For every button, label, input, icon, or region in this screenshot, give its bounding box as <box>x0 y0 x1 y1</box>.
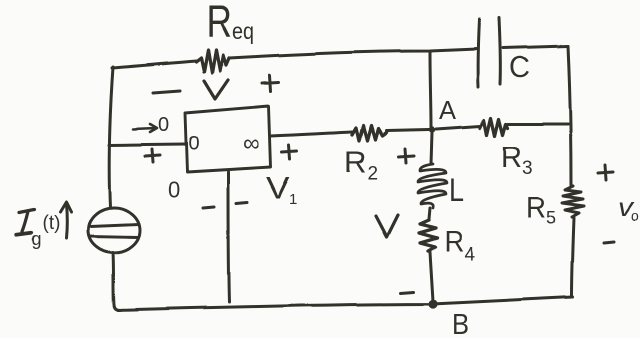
label arrow 0 current into box <box>133 124 157 132</box>
label plus left input <box>145 149 160 162</box>
wire top right segment <box>503 46 568 48</box>
svg-text:∞: ∞ <box>243 130 260 157</box>
wire L to R4 <box>429 208 430 219</box>
op-amp box U1 <box>185 106 271 172</box>
wire top middle segment <box>229 49 477 58</box>
wire R3 to right <box>508 123 568 126</box>
label minus right rail <box>604 242 614 243</box>
svg-text:R: R <box>344 146 366 179</box>
label Ig(t) <box>16 210 34 235</box>
svg-text:o: o <box>631 208 639 224</box>
wire right vertical bottom <box>572 218 574 297</box>
svg-text:R: R <box>444 226 464 258</box>
label V mid branch <box>376 215 398 237</box>
resistor Req <box>196 50 229 73</box>
wire left vertical bottom <box>113 252 120 310</box>
resistor R5 <box>562 186 584 217</box>
svg-text:0: 0 <box>158 114 169 136</box>
svg-text:R: R <box>206 0 232 47</box>
svg-text:0: 0 <box>188 133 199 155</box>
svg-text:4: 4 <box>464 244 475 265</box>
inductor L <box>418 164 447 208</box>
label plus above box <box>262 75 279 91</box>
wire top to node A <box>430 52 431 128</box>
resistor R3 <box>480 118 508 136</box>
wire node A to R3 <box>436 126 480 129</box>
wire top left segment <box>112 61 196 68</box>
wire left vertical top <box>109 67 113 207</box>
svg-text:R: R <box>501 141 522 174</box>
svg-text:5: 5 <box>546 208 556 228</box>
svg-text:3: 3 <box>522 158 533 179</box>
svg-text:L: L <box>449 172 464 208</box>
wire box output <box>271 132 352 136</box>
svg-text:C: C <box>509 51 530 84</box>
label minus above box <box>153 91 180 93</box>
svg-text:eq: eq <box>232 18 254 44</box>
resistor R4 <box>419 220 437 251</box>
wire input to box <box>109 144 186 145</box>
current source Ig <box>88 208 140 253</box>
label arrow up source <box>60 202 71 238</box>
svg-text:V: V <box>266 170 290 205</box>
node A <box>429 127 435 133</box>
svg-text:0: 0 <box>168 177 180 202</box>
label plus right of box <box>282 145 297 159</box>
wire box bottom vertical <box>228 172 229 302</box>
node B <box>428 299 437 308</box>
wire R4 to node B <box>430 252 433 301</box>
svg-text:g: g <box>31 229 41 249</box>
label plus mid <box>398 149 414 163</box>
svg-text:(t): (t) <box>42 213 60 234</box>
svg-text:2: 2 <box>367 163 378 184</box>
wire right vertical top <box>568 46 571 185</box>
resistor R2 <box>352 126 386 141</box>
svg-text:B: B <box>452 309 469 338</box>
label minus above B <box>401 292 414 293</box>
capacitor C <box>478 18 501 87</box>
wire node A down <box>431 133 432 164</box>
label V above box <box>204 80 228 99</box>
wire bottom <box>118 297 573 310</box>
svg-text:1: 1 <box>289 191 297 208</box>
svg-text:A: A <box>439 95 457 125</box>
svg-text:R: R <box>526 192 546 225</box>
label plus right rail <box>598 165 613 180</box>
wire R2 to node A <box>386 130 429 131</box>
label minus minus below box <box>203 202 247 208</box>
